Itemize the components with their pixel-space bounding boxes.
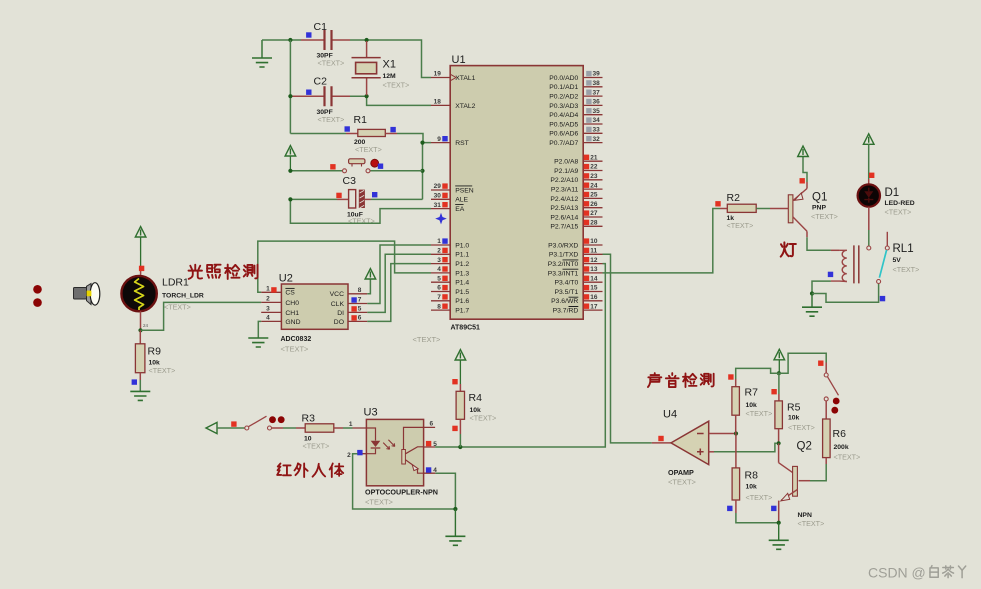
svg-text:P3.3/INT1: P3.3/INT1 xyxy=(548,270,579,277)
svg-text:24: 24 xyxy=(143,323,149,328)
svg-text:15: 15 xyxy=(590,285,598,292)
svg-text:P2.2/A10: P2.2/A10 xyxy=(550,177,578,184)
svg-text:13: 13 xyxy=(590,266,598,273)
svg-text:R3: R3 xyxy=(302,413,316,425)
svg-text:5: 5 xyxy=(437,275,441,282)
svg-text:11: 11 xyxy=(590,248,597,255)
svg-text:P0.1/AD1: P0.1/AD1 xyxy=(549,84,578,91)
svg-text:6: 6 xyxy=(437,285,441,292)
torch icon xyxy=(74,283,100,305)
LED D1 LED-RED xyxy=(858,134,915,250)
svg-text:200k: 200k xyxy=(834,444,849,451)
node LDR/R9 xyxy=(138,323,148,332)
svg-text:R1: R1 xyxy=(354,114,368,126)
svg-text:P1.0: P1.0 xyxy=(455,242,469,249)
svg-text:P2.1/A9: P2.1/A9 xyxy=(554,168,578,175)
svg-text:33: 33 xyxy=(593,127,601,134)
svg-text:36: 36 xyxy=(593,99,601,106)
ground xyxy=(252,40,272,67)
wire U2 GND xyxy=(248,321,268,347)
capacitor C2 xyxy=(290,76,350,125)
svg-text:30: 30 xyxy=(434,193,442,200)
svg-text:5: 5 xyxy=(358,306,362,313)
wire vcc bus left to R7 xyxy=(728,368,779,379)
svg-text:GND: GND xyxy=(285,319,300,326)
relay RL1 5V coil xyxy=(828,243,919,283)
svg-text:<TEXT>: <TEXT> xyxy=(727,221,754,230)
svg-text:18: 18 xyxy=(434,99,442,106)
svg-text:38: 38 xyxy=(593,80,601,87)
svg-text:P0.6/AD6: P0.6/AD6 xyxy=(549,131,578,138)
resistor R8 10k xyxy=(727,434,779,523)
svg-text:EA: EA xyxy=(455,206,465,213)
power terminal xyxy=(285,146,296,171)
svg-text:27: 27 xyxy=(590,210,598,217)
svg-text:DI: DI xyxy=(337,310,344,317)
svg-text:37: 37 xyxy=(593,89,601,96)
svg-text:29: 29 xyxy=(434,183,442,190)
svg-text:22: 22 xyxy=(590,164,598,171)
svg-text:P0.7/AD7: P0.7/AD7 xyxy=(549,140,578,147)
svg-text:P3.7/RD: P3.7/RD xyxy=(553,308,579,315)
wire P3.1 to opamp output xyxy=(603,254,672,443)
svg-text:<TEXT>: <TEXT> xyxy=(798,519,825,528)
svg-text:PSEN: PSEN xyxy=(455,187,474,194)
svg-text:P1.6: P1.6 xyxy=(455,298,469,305)
svg-text:3: 3 xyxy=(437,257,441,264)
input terminal xyxy=(206,422,217,433)
svg-text:12: 12 xyxy=(590,257,598,264)
label: sound detection xyxy=(648,373,714,387)
svg-text:ADC0832: ADC0832 xyxy=(281,336,312,343)
svg-text:16: 16 xyxy=(590,294,598,301)
relay switch contacts xyxy=(877,232,890,284)
svg-text:R4: R4 xyxy=(469,392,483,404)
chip U1 AT89C51 xyxy=(413,54,603,344)
node: C1/XTAL junctions xyxy=(288,38,368,42)
svg-text:8: 8 xyxy=(437,303,441,310)
svg-text:LDR1: LDR1 xyxy=(162,277,189,289)
svg-text:<TEXT>: <TEXT> xyxy=(355,145,382,154)
svg-text:2: 2 xyxy=(437,248,441,255)
svg-text:<TEXT>: <TEXT> xyxy=(413,335,442,344)
svg-text:P2.7/A15: P2.7/A15 xyxy=(550,224,578,231)
wire Q1 emitter to power xyxy=(798,146,809,189)
svg-text:<TEXT>: <TEXT> xyxy=(885,207,912,216)
svg-text:7: 7 xyxy=(437,294,441,301)
svg-text:32: 32 xyxy=(593,136,601,143)
svg-text:<TEXT>: <TEXT> xyxy=(834,452,861,461)
svg-text:P3.1/TXD: P3.1/TXD xyxy=(549,252,579,259)
svg-text:8: 8 xyxy=(358,287,362,294)
label: infrared human body xyxy=(277,463,343,477)
svg-text:<TEXT>: <TEXT> xyxy=(383,81,410,90)
wire DO to P1.2 xyxy=(367,264,431,322)
svg-text:C2: C2 xyxy=(314,76,328,88)
svg-text:R9: R9 xyxy=(148,346,162,358)
wire U3 pin2 to ground xyxy=(353,454,456,509)
svg-text:ALE: ALE xyxy=(455,197,468,204)
switch (sound trigger) xyxy=(824,373,839,414)
ground xyxy=(130,391,150,400)
ground xyxy=(769,523,789,550)
svg-text:LED-RED: LED-RED xyxy=(885,200,915,207)
svg-text:4: 4 xyxy=(266,315,270,322)
svg-text:U3: U3 xyxy=(364,407,378,419)
svg-text:1: 1 xyxy=(266,286,270,293)
svg-text:XTAL2: XTAL2 xyxy=(455,103,475,110)
svg-text:DO: DO xyxy=(334,319,344,326)
svg-text:34: 34 xyxy=(593,117,601,124)
svg-text:AT89C51: AT89C51 xyxy=(451,325,481,332)
svg-text:1: 1 xyxy=(437,238,441,245)
resistor R1 200 xyxy=(290,114,423,154)
svg-text:R6: R6 xyxy=(833,428,847,440)
svg-text:OPTOCOUPLER-NPN: OPTOCOUPLER-NPN xyxy=(365,487,438,496)
wire U3 pin5 to R4 node and P3.2 xyxy=(435,264,605,450)
svg-text:<TEXT>: <TEXT> xyxy=(668,477,697,486)
wire xyxy=(262,40,431,78)
svg-text:<TEXT>: <TEXT> xyxy=(303,441,330,450)
wire xyxy=(288,94,431,105)
svg-text:P3.0/RXD: P3.0/RXD xyxy=(548,242,578,249)
wire U3 pin4 down xyxy=(435,473,455,509)
wire LDR to CH0 xyxy=(141,302,262,330)
svg-text:<TEXT>: <TEXT> xyxy=(348,217,375,226)
svg-text:CS: CS xyxy=(285,290,295,297)
wire xyxy=(217,421,245,428)
svg-text:CLK: CLK xyxy=(331,301,345,308)
svg-text:<TEXT>: <TEXT> xyxy=(149,366,176,375)
resistor R4 10k xyxy=(452,379,496,447)
wire xyxy=(289,40,291,134)
svg-text:<TEXT>: <TEXT> xyxy=(318,115,345,124)
svg-text:P2.0/A8: P2.0/A8 xyxy=(554,159,578,166)
svg-text:<TEXT>: <TEXT> xyxy=(281,345,310,354)
svg-text:6: 6 xyxy=(358,315,362,322)
svg-text:P1.1: P1.1 xyxy=(455,252,469,259)
op-amp U4 OPAMP xyxy=(663,409,709,487)
svg-text:5V: 5V xyxy=(893,257,902,264)
svg-text:P1.4: P1.4 xyxy=(455,280,469,287)
svg-text:U1: U1 xyxy=(452,54,466,66)
svg-text:CH1: CH1 xyxy=(285,310,299,317)
svg-text:24: 24 xyxy=(590,182,598,189)
capacitor C3 10uF xyxy=(290,175,422,226)
wire DI to P1.1 xyxy=(367,254,431,312)
wire relay contact return xyxy=(812,284,885,303)
svg-text:P3.4/T0: P3.4/T0 xyxy=(554,280,578,287)
svg-text:P3.2/INT0: P3.2/INT0 xyxy=(548,261,579,268)
svg-text:P3.6/WR: P3.6/WR xyxy=(551,298,578,305)
crystal X1 12M xyxy=(352,41,410,95)
svg-text:P1.3: P1.3 xyxy=(455,270,469,277)
svg-text:CSDN @: CSDN @ xyxy=(868,565,926,581)
svg-text:<TEXT>: <TEXT> xyxy=(365,498,394,507)
svg-text:25: 25 xyxy=(590,192,598,199)
svg-text:2: 2 xyxy=(266,296,270,303)
switch (IR trigger) xyxy=(245,416,285,430)
svg-text:P0.0/AD0: P0.0/AD0 xyxy=(549,75,578,82)
svg-text:23: 23 xyxy=(590,173,598,180)
resistor R5 10k xyxy=(771,373,814,445)
svg-text:P2.6/A14: P2.6/A14 xyxy=(550,214,578,221)
svg-text:U2: U2 xyxy=(279,273,293,285)
svg-text:P2.4/A12: P2.4/A12 xyxy=(550,196,578,203)
svg-text:<TEXT>: <TEXT> xyxy=(318,59,345,68)
wire relay coil to ground xyxy=(802,281,831,316)
power terminal xyxy=(774,349,785,375)
svg-text:<TEXT>: <TEXT> xyxy=(811,212,838,221)
svg-text:P1.2: P1.2 xyxy=(455,261,469,268)
node / ground xyxy=(445,507,465,545)
svg-text:<TEXT>: <TEXT> xyxy=(893,265,920,274)
svg-text:28: 28 xyxy=(590,220,598,227)
label: light detection xyxy=(189,265,258,279)
svg-text:10k: 10k xyxy=(788,414,800,421)
wire CLK to P1.0 xyxy=(367,245,431,304)
svg-text:4: 4 xyxy=(437,266,441,273)
resistor R3 10 xyxy=(272,413,353,451)
power terminal xyxy=(135,227,146,267)
svg-text:P2.3/A11: P2.3/A11 xyxy=(551,187,579,194)
svg-text:VCC: VCC xyxy=(330,291,344,298)
svg-text:Q2: Q2 xyxy=(797,441,812,453)
transistor Q2 NPN xyxy=(777,441,825,529)
resistor R7 10k xyxy=(732,379,772,434)
svg-text:<TEXT>: <TEXT> xyxy=(788,423,815,432)
svg-text:<TEXT>: <TEXT> xyxy=(164,303,191,312)
svg-text:P1.7: P1.7 xyxy=(455,308,469,315)
svg-text:39: 39 xyxy=(593,71,601,78)
capacitor C1 xyxy=(301,21,350,68)
wire Q1 collector to relay coil xyxy=(807,231,840,250)
svg-text:TORCH_LDR: TORCH_LDR xyxy=(162,293,204,300)
svg-text:2: 2 xyxy=(347,452,351,459)
svg-text:31: 31 xyxy=(434,202,442,209)
resistor R9 10k xyxy=(132,330,176,391)
svg-text:P0.4/AD4: P0.4/AD4 xyxy=(549,112,578,119)
svg-text:Q1: Q1 xyxy=(812,192,827,204)
svg-text:17: 17 xyxy=(590,303,598,310)
wire U2 VCC to power xyxy=(365,269,376,294)
svg-text:19: 19 xyxy=(434,71,442,78)
svg-text:21: 21 xyxy=(590,154,598,161)
svg-text:<TEXT>: <TEXT> xyxy=(470,413,497,422)
svg-text:C3: C3 xyxy=(343,175,357,187)
svg-text:1: 1 xyxy=(349,421,353,428)
resistor R6 200k xyxy=(799,401,861,481)
svg-text:26: 26 xyxy=(590,201,598,208)
svg-text:6: 6 xyxy=(430,421,434,428)
svg-text:RL1: RL1 xyxy=(893,243,914,255)
photoresistor LDR1 TORCH_LDR xyxy=(121,266,203,331)
wire CS to P1.3 xyxy=(258,241,431,292)
svg-text:R7: R7 xyxy=(745,387,759,399)
svg-text:RST: RST xyxy=(455,140,469,147)
svg-text:12M: 12M xyxy=(383,73,397,80)
wire EA net xyxy=(288,197,431,223)
wire RST net xyxy=(420,141,431,200)
svg-text:PNP: PNP xyxy=(812,204,826,211)
svg-text:P0.5/AD5: P0.5/AD5 xyxy=(549,121,578,128)
svg-text:35: 35 xyxy=(593,108,601,115)
svg-text:10: 10 xyxy=(590,238,598,245)
marker: origin star xyxy=(435,213,447,225)
wire vcc bus right to switch xyxy=(779,353,826,373)
svg-text:R5: R5 xyxy=(787,402,801,414)
svg-text:C1: C1 xyxy=(314,21,328,33)
svg-text:9: 9 xyxy=(437,136,441,143)
svg-text:7: 7 xyxy=(358,297,362,304)
power terminal xyxy=(455,350,466,385)
wire P3.3 to R2 xyxy=(603,209,721,273)
svg-text:R8: R8 xyxy=(745,470,759,482)
svg-text:OPAMP: OPAMP xyxy=(668,468,694,477)
svg-text:U4: U4 xyxy=(663,409,677,421)
svg-text:10k: 10k xyxy=(746,402,758,409)
indicator dots xyxy=(33,285,42,307)
wire opamp minus input to R7/R8 node xyxy=(709,431,738,435)
label: lamp xyxy=(781,242,796,256)
svg-text:X1: X1 xyxy=(383,59,396,71)
push button (reset) xyxy=(288,159,422,173)
svg-text:P1.5: P1.5 xyxy=(455,289,469,296)
svg-text:XTAL1: XTAL1 xyxy=(455,75,475,82)
resistor R2 1k xyxy=(715,192,788,230)
svg-text:R2: R2 xyxy=(727,192,741,204)
svg-text:3: 3 xyxy=(266,306,270,313)
transistor Q1 PNP xyxy=(788,189,837,232)
svg-text:10k: 10k xyxy=(746,483,758,490)
svg-text:CH0: CH0 xyxy=(285,300,299,307)
svg-text:14: 14 xyxy=(590,275,598,282)
chip U3 OPTOCOUPLER-NPN xyxy=(347,407,438,507)
svg-text:<TEXT>: <TEXT> xyxy=(746,409,773,418)
svg-text:D1: D1 xyxy=(885,187,900,199)
svg-text:P2.5/A13: P2.5/A13 xyxy=(550,205,578,212)
svg-text:<TEXT>: <TEXT> xyxy=(746,493,773,502)
svg-text:P3.5/T1: P3.5/T1 xyxy=(554,289,578,296)
wire opamp plus input to R5 node xyxy=(709,443,777,452)
svg-text:P0.3/AD3: P0.3/AD3 xyxy=(549,103,578,110)
svg-text:P0.2/AD2: P0.2/AD2 xyxy=(549,94,578,101)
chip U2 ADC0832 xyxy=(261,273,367,354)
watermark CSDN xyxy=(868,565,966,581)
